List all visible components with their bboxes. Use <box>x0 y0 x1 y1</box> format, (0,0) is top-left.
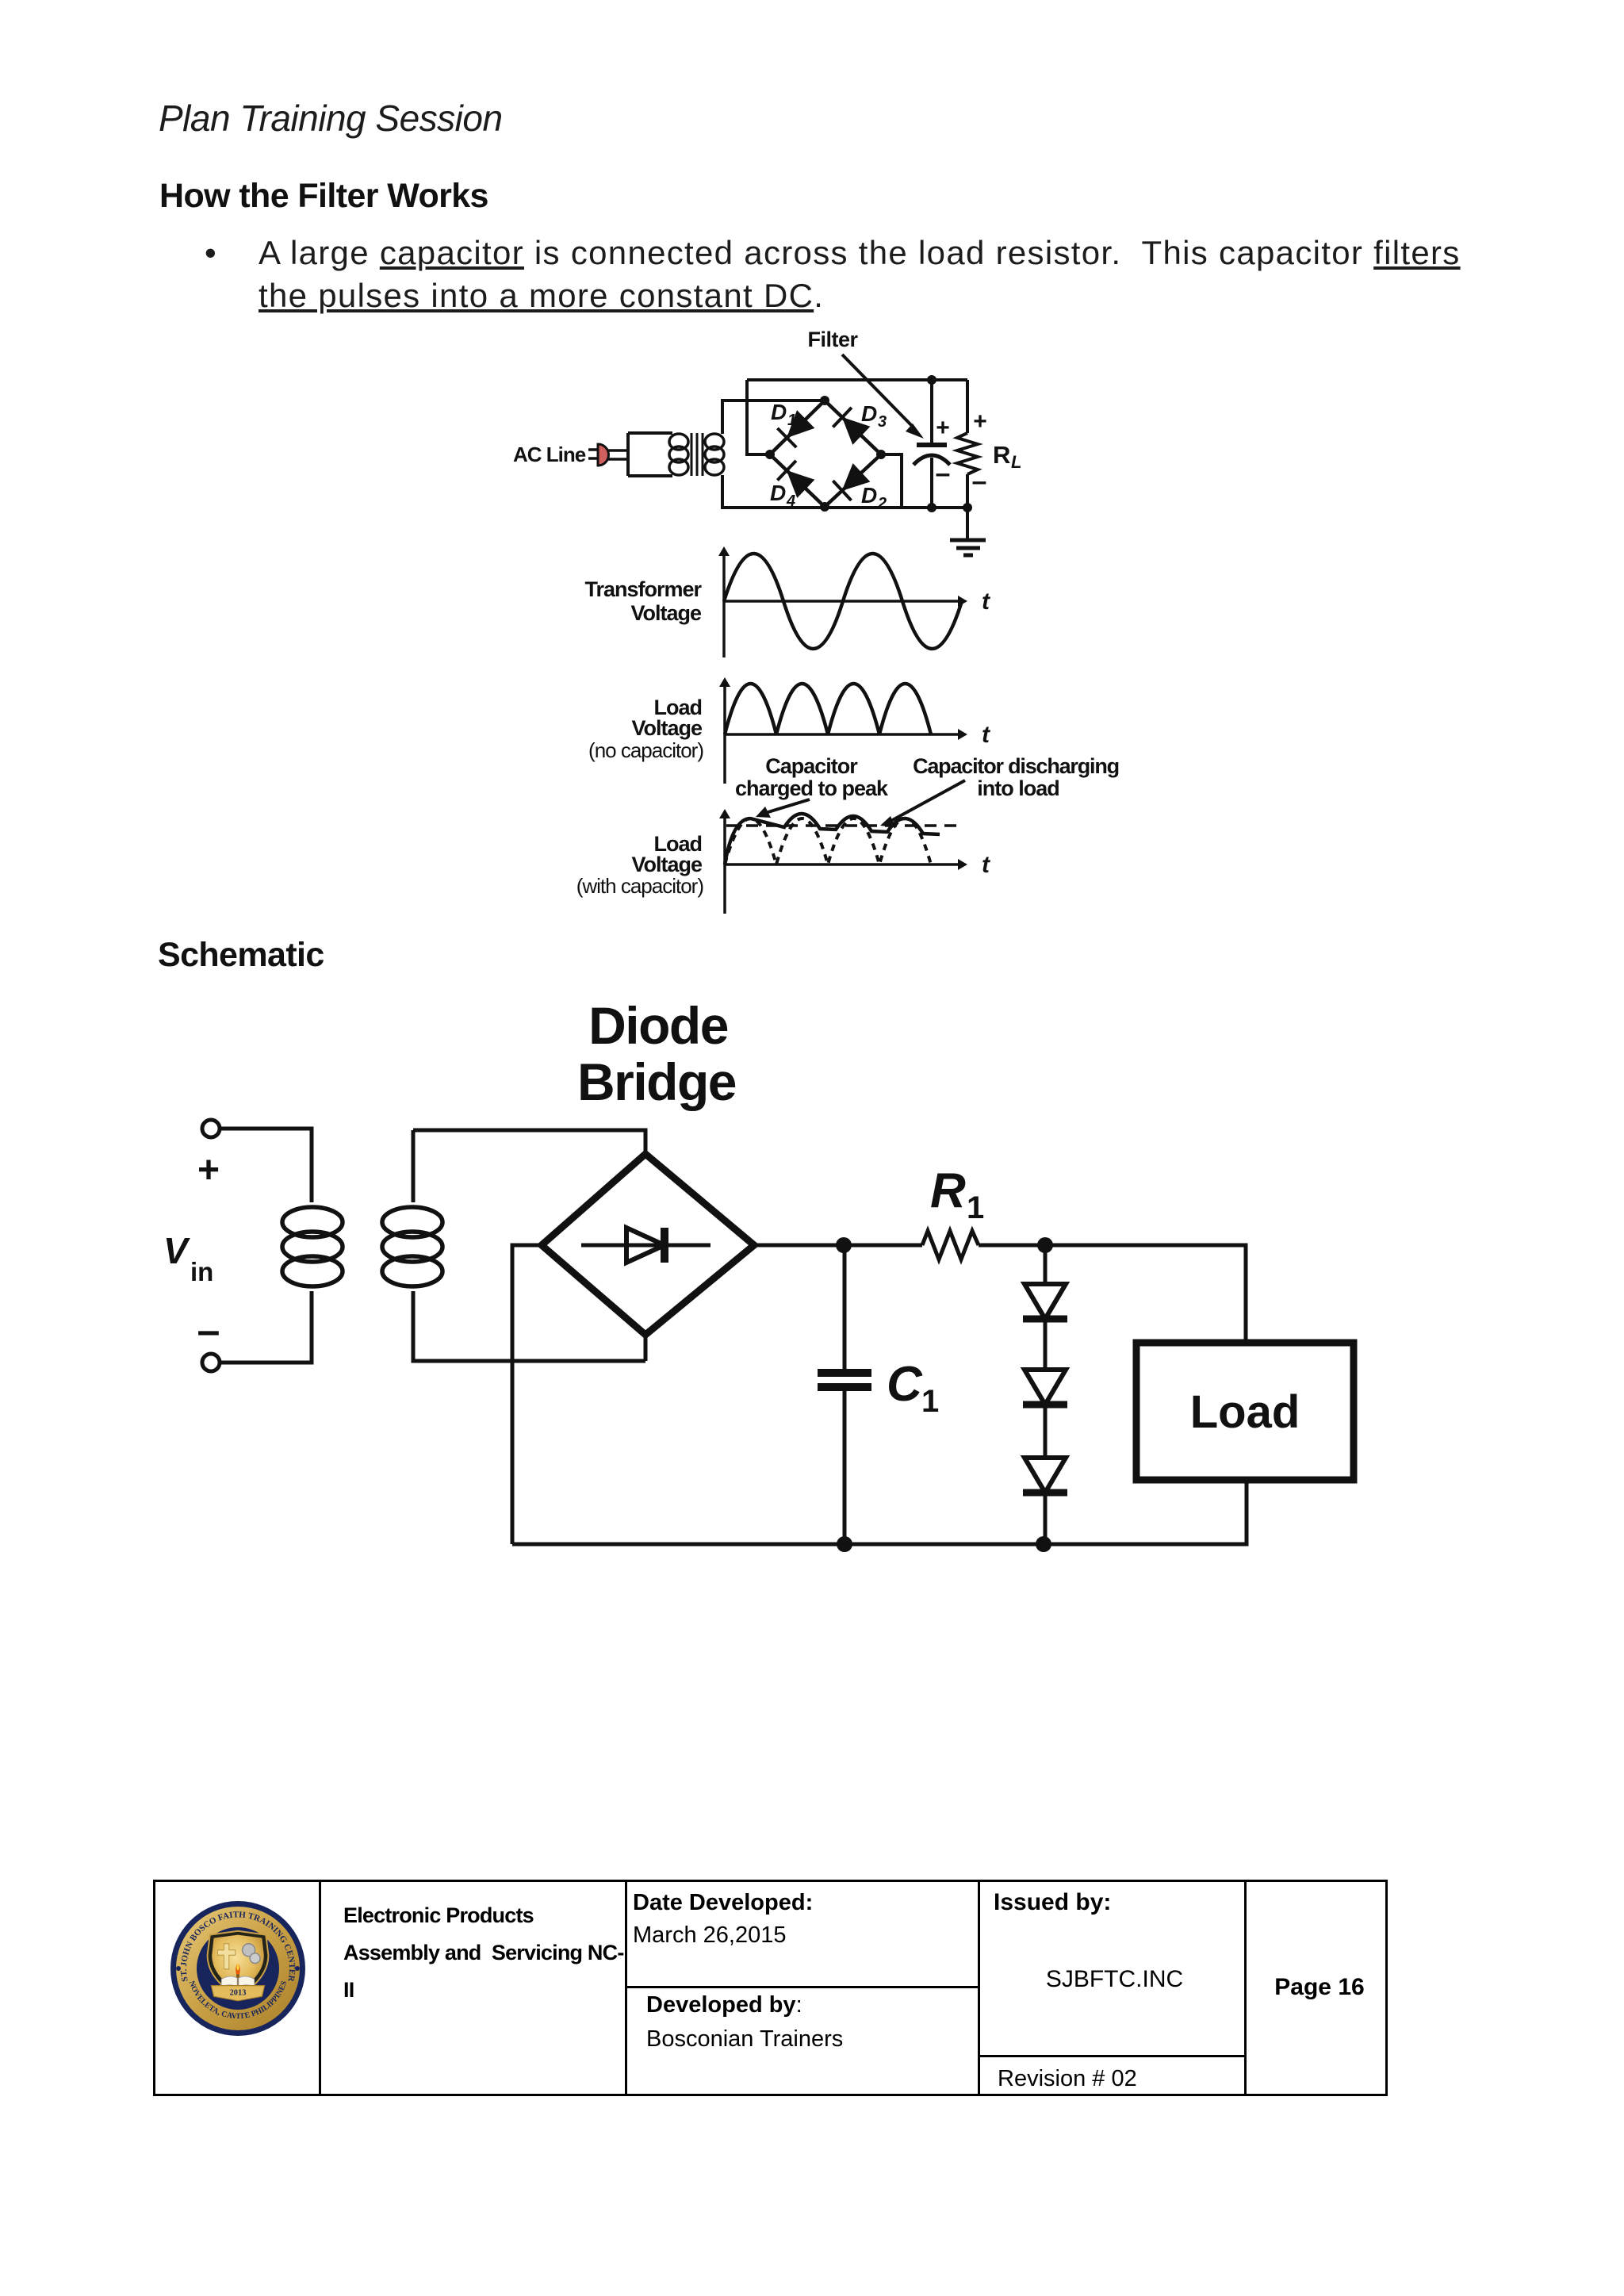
svg-text:Voltage: Voltage <box>630 601 701 625</box>
svg-text:Capacitor: Capacitor <box>765 754 858 778</box>
svg-text:2: 2 <box>877 495 887 512</box>
svg-text:–: – <box>972 466 987 496</box>
svg-text:Transformer: Transformer <box>584 577 702 601</box>
svg-text:+: + <box>936 415 950 441</box>
svg-text:+: + <box>197 1149 220 1191</box>
svg-text:t: t <box>982 852 991 878</box>
svg-text:Diode: Diode <box>588 999 728 1055</box>
svg-text:V: V <box>163 1230 190 1271</box>
svg-text:D: D <box>861 401 877 426</box>
svg-text:–: – <box>936 458 951 489</box>
svg-text:D: D <box>771 400 787 424</box>
svg-text:Bridge: Bridge <box>577 1052 736 1111</box>
svg-text:3: 3 <box>878 413 887 431</box>
svg-text:Filter: Filter <box>807 328 858 351</box>
svg-text:Voltage: Voltage <box>631 853 702 876</box>
svg-text:charged to peak: charged to peak <box>735 776 889 800</box>
svg-text:R: R <box>930 1163 966 1218</box>
svg-text:2013: 2013 <box>230 1989 247 1998</box>
svg-text:D: D <box>770 481 786 505</box>
svg-text:L: L <box>1011 452 1021 472</box>
svg-text:Load: Load <box>1190 1386 1300 1438</box>
svg-text:R: R <box>993 441 1010 469</box>
svg-text:into load: into load <box>977 776 1059 800</box>
svg-text:(no capacitor): (no capacitor) <box>588 738 703 762</box>
svg-text:D: D <box>861 483 877 508</box>
svg-text:1: 1 <box>921 1384 939 1419</box>
svg-text:+: + <box>973 408 987 435</box>
svg-text:Capacitor discharging: Capacitor discharging <box>913 754 1119 778</box>
svg-text:t: t <box>982 588 991 615</box>
svg-text:t: t <box>982 722 991 748</box>
svg-text:1: 1 <box>967 1190 984 1225</box>
svg-text:1: 1 <box>787 412 796 429</box>
svg-text:in: in <box>190 1257 213 1286</box>
svg-text:AC Line: AC Line <box>513 443 586 466</box>
svg-text:4: 4 <box>786 493 795 510</box>
svg-text:(with capacitor): (with capacitor) <box>576 874 704 898</box>
svg-text:Voltage: Voltage <box>631 716 702 740</box>
svg-text:–: – <box>197 1308 220 1354</box>
svg-text:C: C <box>887 1357 923 1412</box>
